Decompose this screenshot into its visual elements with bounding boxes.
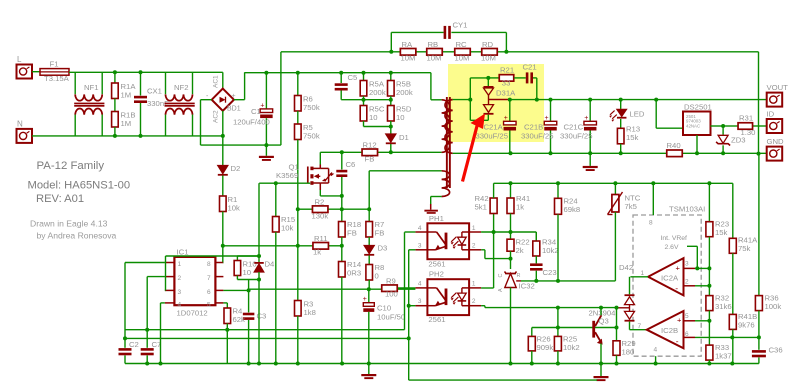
resistor R1A <box>114 72 116 83</box>
junction gate R15 <box>274 181 278 185</box>
junction R1A top <box>113 70 117 74</box>
resistor RD <box>482 49 498 56</box>
svg-text:IC2B: IC2B <box>661 326 678 335</box>
wire top rail primary <box>69 71 223 73</box>
junction PH2 pin3 tap <box>407 304 411 308</box>
wire R29 top link <box>616 308 618 341</box>
svg-text:10M: 10M <box>455 54 470 63</box>
wire PH1 pin1 row <box>481 231 536 233</box>
junction R5A bottom <box>362 98 366 102</box>
wire R21 feed <box>488 77 499 79</box>
svg-text:4: 4 <box>178 301 182 308</box>
svg-text:5k1: 5k1 <box>475 203 487 212</box>
wire Q3 collector <box>600 308 602 316</box>
capacitor C23 <box>535 271 537 281</box>
junction minus row R col <box>707 284 711 288</box>
svg-text:2561: 2561 <box>428 259 445 268</box>
svg-text:10M: 10M <box>481 54 496 63</box>
junction R2 row R18 <box>340 207 344 211</box>
wire vout rail <box>510 99 767 101</box>
capacitor C2 <box>119 348 132 351</box>
svg-text:1: 1 <box>472 281 476 288</box>
svg-text:C: C <box>498 274 504 278</box>
svg-text:8: 8 <box>649 220 653 227</box>
svg-text:7: 7 <box>638 323 642 330</box>
wire D4R10 bottom node <box>236 276 238 280</box>
svg-text:VOUT: VOUT <box>767 83 789 92</box>
resistor R18 <box>341 209 343 221</box>
svg-text:K3569: K3569 <box>276 171 298 180</box>
junction IC32 anode rail <box>509 362 513 366</box>
dual diode D42 <box>629 277 631 295</box>
capacitor C7 <box>141 348 154 351</box>
diode D2 <box>222 136 224 165</box>
svg-text:R12: R12 <box>363 141 377 150</box>
resistor R5B <box>390 73 392 81</box>
thermistor NTC <box>614 183 616 194</box>
svg-text:15k: 15k <box>715 228 728 237</box>
opamp IC2B <box>647 311 684 348</box>
junction R41B rail <box>730 362 734 366</box>
junction C6 top <box>340 150 344 154</box>
svg-text:1k: 1k <box>313 248 321 257</box>
resistor R8 <box>366 265 373 281</box>
opamp IC2A <box>648 258 683 295</box>
wire IC2B plus row <box>695 320 709 322</box>
junction C1 bottom <box>264 143 268 147</box>
svg-text:PH1: PH1 <box>429 214 444 223</box>
transformer aux winding <box>442 171 450 197</box>
wire PH1 pin3 row <box>409 249 416 251</box>
wire fb row <box>249 288 382 290</box>
svg-text:180: 180 <box>622 348 635 357</box>
transformer primary winding <box>442 100 450 153</box>
svg-text:C21C: C21C <box>564 123 584 132</box>
wire R41A col <box>732 183 734 238</box>
svg-text:NF1: NF1 <box>84 83 99 92</box>
junction R1A bottom <box>113 134 117 138</box>
svg-text:2: 2 <box>178 275 182 282</box>
inductor NF1 <box>75 94 102 100</box>
capacitor C21 <box>526 72 529 83</box>
ic IC1 box <box>174 257 215 305</box>
wire IC2A plus row <box>695 267 709 269</box>
ic IC1 pins <box>165 262 175 264</box>
svg-text:120uF/400: 120uF/400 <box>233 118 270 127</box>
junction rail183 R24col <box>556 181 560 185</box>
svg-text:C21A: C21A <box>484 123 504 132</box>
junction C21A bottom <box>509 151 513 155</box>
svg-text:7: 7 <box>207 275 211 282</box>
wire PH2 pin3 row <box>409 305 416 307</box>
resistor R2 <box>312 206 328 213</box>
junction R11 row R18 <box>340 244 344 248</box>
wire NF1 bot-right stub <box>101 115 103 136</box>
junction C1 top <box>264 71 268 75</box>
junction rail183 NTC <box>613 181 617 185</box>
svg-text:10: 10 <box>369 113 378 122</box>
junction pin6 C3 <box>247 288 251 292</box>
junction rail183 R41col <box>509 181 513 185</box>
junction AC2 node <box>221 134 225 138</box>
svg-text:+: + <box>676 264 681 273</box>
wire R2 row <box>298 208 313 210</box>
wire NF1 top-left stub <box>74 72 76 94</box>
svg-text:4: 4 <box>654 347 658 354</box>
resistor RA <box>400 49 416 56</box>
wire pin3 route <box>164 289 167 291</box>
junction R13 bottom <box>619 151 623 155</box>
wire IC2B minus row <box>695 336 759 338</box>
junction minus C36 col <box>757 335 761 339</box>
resistor R42 <box>490 198 497 214</box>
svg-text:C1: C1 <box>251 107 261 116</box>
svg-text:by Andrea Ronesova: by Andrea Ronesova <box>37 231 117 241</box>
wire PH2 pin4 row <box>398 287 415 289</box>
capacitor C10 <box>368 289 370 302</box>
svg-text:4: 4 <box>418 225 422 232</box>
resistor R3 <box>295 301 302 317</box>
svg-text:FB: FB <box>365 155 375 164</box>
svg-text:N: N <box>17 120 23 129</box>
junction ZD3 bottom <box>721 151 725 155</box>
svg-text:100: 100 <box>385 290 398 299</box>
junction Q3 emitter rail <box>599 362 603 366</box>
svg-text:10: 10 <box>396 113 405 122</box>
resistor R31 <box>738 123 753 130</box>
wire pin4 gnd <box>655 356 657 363</box>
wire IC2A minus row <box>695 285 709 287</box>
fuse F1 <box>40 69 69 76</box>
capacitor C36 <box>758 337 760 349</box>
transistor Q3 2N3904 <box>592 321 595 338</box>
junction lineB start <box>123 336 127 340</box>
svg-text:R31: R31 <box>739 114 753 123</box>
svg-text:ZD3: ZD3 <box>731 136 746 145</box>
svg-text:1M: 1M <box>121 119 132 128</box>
resistor R33 <box>708 321 710 345</box>
ground Q3 area <box>600 364 602 377</box>
junction C21B bottom <box>549 151 553 155</box>
wire AC1 to bridge <box>222 72 224 88</box>
svg-text:2: 2 <box>472 298 476 305</box>
svg-text:RB: RB <box>428 40 439 49</box>
svg-text:3: 3 <box>178 289 182 296</box>
capacitor C5 <box>340 73 342 83</box>
svg-text:C21: C21 <box>523 63 537 72</box>
junction C7 bottom <box>145 362 149 366</box>
junction RA rail left <box>389 50 393 54</box>
svg-text:9k76: 9k76 <box>738 321 755 330</box>
svg-text:3: 3 <box>685 260 689 267</box>
svg-text:F1: F1 <box>50 60 59 69</box>
svg-text:FB: FB <box>375 229 385 238</box>
wire Q3 emitter <box>600 344 602 364</box>
wire pin1 route <box>125 262 165 264</box>
svg-text:D1: D1 <box>399 133 409 142</box>
svg-text:75k: 75k <box>738 244 751 253</box>
svg-text:R: R <box>517 273 521 279</box>
svg-text:33: 33 <box>502 79 511 88</box>
svg-text:RD: RD <box>482 40 494 49</box>
wire pin8 V+ <box>652 183 654 215</box>
wire line b <box>125 337 409 339</box>
svg-text:0R3: 0R3 <box>347 269 361 278</box>
svg-text:8: 8 <box>207 261 211 268</box>
svg-text:10uF/50: 10uF/50 <box>377 313 405 322</box>
svg-text:T3.15A: T3.15A <box>44 74 70 83</box>
svg-text:-: - <box>675 283 678 293</box>
capacitor CY1 <box>444 26 447 39</box>
terminal GND <box>767 147 783 161</box>
diode D1 <box>390 127 392 134</box>
svg-text:330uF/25: 330uF/25 <box>560 132 592 141</box>
svg-text:10M: 10M <box>427 54 442 63</box>
svg-text:C21B: C21B <box>524 123 543 132</box>
junction pin4 bottom <box>159 362 163 366</box>
junction D4 col rail <box>257 362 261 366</box>
resistor R32 <box>708 268 710 295</box>
svg-text:2: 2 <box>685 279 689 286</box>
svg-text:D4: D4 <box>265 260 276 269</box>
wire pin2 route <box>147 276 165 278</box>
resistor RC <box>455 49 471 56</box>
svg-text:L: L <box>17 55 22 64</box>
ground main bottom <box>368 364 370 375</box>
svg-text:2.6V: 2.6V <box>665 244 679 251</box>
resistor R25 <box>557 328 559 337</box>
resistor R22 <box>510 232 512 239</box>
wire rail183 corner <box>493 183 495 198</box>
svg-text:IC1: IC1 <box>177 248 189 257</box>
wire aux tap <box>431 196 442 198</box>
wire NF1 top-right stub <box>101 72 103 94</box>
wire primary top <box>430 73 432 100</box>
resistor R5 <box>295 124 302 140</box>
wire R11 row <box>223 245 313 247</box>
wire R21 to C21 <box>514 77 526 79</box>
svg-text:200k: 200k <box>369 88 386 97</box>
svg-text:69k8: 69k8 <box>564 205 581 214</box>
junction R33 rail <box>707 362 711 366</box>
wire R42 col <box>493 214 495 289</box>
svg-text:PA-12 Family: PA-12 Family <box>37 160 105 172</box>
junction LED top <box>619 98 623 102</box>
svg-text:PH2: PH2 <box>429 270 444 279</box>
resistor R14 <box>341 246 343 262</box>
resistor R6 <box>297 73 299 96</box>
junction pin4 rail <box>654 362 658 366</box>
junction R3 bottom <box>296 362 300 366</box>
optocoupler PH1 <box>427 223 469 259</box>
junction plus row R col <box>707 266 711 270</box>
svg-text:DS2501: DS2501 <box>684 103 712 112</box>
wire R26 col <box>531 328 533 337</box>
wire R12 row <box>320 151 362 153</box>
junction divider R25 <box>556 326 560 330</box>
svg-text:D3: D3 <box>378 244 388 253</box>
junction R5B bottom <box>389 98 393 102</box>
junction R5D bottom <box>389 125 393 129</box>
junction C3 bottom <box>247 362 251 366</box>
junction R2 row R7col <box>367 207 371 211</box>
svg-text:7k5: 7k5 <box>625 202 637 211</box>
svg-text:-: - <box>206 93 209 100</box>
diode D3 <box>364 246 374 254</box>
resistor R21 <box>499 75 514 82</box>
ic TSM103 box <box>633 215 701 356</box>
optocoupler PH2 <box>427 279 469 315</box>
svg-text:C36: C36 <box>769 346 783 355</box>
junction R6 top <box>296 71 300 75</box>
svg-text:2k: 2k <box>516 246 524 255</box>
svg-text:1: 1 <box>472 225 476 232</box>
junction D1 bottom R12 row <box>389 150 393 154</box>
junction R29 rail <box>615 362 619 366</box>
highlight region <box>448 64 544 142</box>
wire pin8 route <box>222 262 225 264</box>
resistor R4 <box>224 308 231 324</box>
svg-text:6: 6 <box>685 331 689 338</box>
wire Q1 source <box>319 190 321 196</box>
wire Q1 source col <box>341 196 343 209</box>
resistor R24 <box>557 183 559 198</box>
svg-text:C23: C23 <box>543 268 557 277</box>
resistor R11 <box>313 243 329 250</box>
svg-text:1k8: 1k8 <box>304 308 316 317</box>
wire D4 col to rail <box>258 280 260 364</box>
junction IC2B plus node <box>707 319 711 323</box>
junction D31A out <box>508 98 512 102</box>
junction C21C bottom <box>588 151 592 155</box>
junction R24 bottom <box>556 279 560 283</box>
resistor R34 <box>535 232 537 241</box>
wire PH1 pin4 row <box>405 231 416 233</box>
junction R8 bottom <box>367 287 371 291</box>
junction pin2row R29 <box>615 306 619 310</box>
inductor NF2 <box>166 94 193 100</box>
bridge rectifier BD1 <box>212 89 234 111</box>
svg-text:10k2: 10k2 <box>542 246 559 255</box>
svg-text:3: 3 <box>418 242 422 249</box>
svg-text:1: 1 <box>641 270 645 277</box>
junction R11 row R5col <box>296 244 300 248</box>
zener ZD3 <box>722 126 724 135</box>
wire rail 183 <box>494 182 733 184</box>
wire earth column <box>758 52 760 154</box>
junction C21C top <box>588 98 592 102</box>
resistor R1 <box>222 176 224 197</box>
svg-text:D2: D2 <box>231 164 241 173</box>
resistor R12 <box>362 149 378 156</box>
junction CX1 bottom <box>139 134 143 138</box>
wire R5 mid node <box>364 99 391 101</box>
ground below C1 <box>265 145 267 156</box>
diode LED <box>620 100 622 109</box>
wire PH2 pin2 row <box>481 305 485 307</box>
resistor R5D <box>390 100 392 106</box>
junction R26 rail <box>530 362 534 366</box>
svg-text:AC2: AC2 <box>213 110 220 123</box>
svg-text:ID: ID <box>767 110 775 119</box>
capacitor C21B <box>550 100 552 121</box>
capacitor C6 <box>341 152 343 169</box>
svg-text:1k37: 1k37 <box>715 352 732 361</box>
capacitor C21C <box>589 100 591 121</box>
svg-text:Drawn in Eagle 4.13: Drawn in Eagle 4.13 <box>30 219 108 229</box>
wire L to F1 <box>32 71 40 73</box>
transistor Q1 K3569 <box>307 167 309 184</box>
wire N row <box>32 135 223 137</box>
resistor R15 <box>275 183 277 216</box>
svg-text:R21: R21 <box>500 66 514 75</box>
svg-text:LED: LED <box>630 110 645 119</box>
capacitor C21A <box>509 100 511 121</box>
wire rail d <box>409 379 597 381</box>
transformer secondary winding <box>445 100 453 154</box>
svg-text:C2: C2 <box>129 340 139 349</box>
svg-text:D42: D42 <box>619 263 633 272</box>
wire NF2 top-right stub <box>192 72 194 94</box>
wire secondary bottom <box>453 152 511 154</box>
svg-text:R11: R11 <box>314 234 328 243</box>
svg-text:31k6: 31k6 <box>715 302 732 311</box>
wire PH col3 down <box>408 250 410 380</box>
resistor RB <box>427 49 443 56</box>
junction C5 top <box>339 71 343 75</box>
svg-text:62k: 62k <box>233 315 246 324</box>
wire NF1 bot-left stub <box>74 115 76 136</box>
wire line a <box>125 329 405 331</box>
junction R5B top <box>389 71 393 75</box>
junction pin1row R42 <box>492 230 496 234</box>
svg-text:2561: 2561 <box>428 315 445 324</box>
svg-text:C10: C10 <box>377 304 391 313</box>
svg-text:GND: GND <box>767 137 785 146</box>
svg-text:10k: 10k <box>228 204 241 213</box>
svg-text:1M: 1M <box>121 91 132 100</box>
junction R15 bottom <box>274 362 278 366</box>
wire minus rail up to CY net <box>280 52 282 145</box>
wire IC2A out <box>630 276 648 278</box>
wire RA rail <box>281 51 401 53</box>
wire plus rail <box>245 72 431 74</box>
junction CX1 top <box>139 70 143 74</box>
resistor R40 <box>667 150 683 157</box>
svg-text:1k: 1k <box>516 203 524 212</box>
resistor R36 <box>758 154 760 296</box>
resistor R29 <box>613 341 620 356</box>
dual diode D31A <box>487 78 489 86</box>
wire gate col down <box>258 183 260 256</box>
tl431 IC32 <box>510 259 512 269</box>
svg-text:C3: C3 <box>257 312 267 321</box>
wire BD1 plus up <box>234 99 245 101</box>
resistor R26 <box>528 336 535 351</box>
svg-text:FB: FB <box>347 229 357 238</box>
svg-text:2: 2 <box>472 242 476 249</box>
svg-text:RA: RA <box>402 40 414 49</box>
resistor R13 <box>617 128 624 144</box>
terminal L <box>17 65 33 79</box>
svg-text:BD1: BD1 <box>227 106 241 113</box>
wire secondary gnd rail <box>511 152 667 154</box>
wire PH2 pin1 jog <box>481 287 494 289</box>
wire AC2 to N node <box>222 111 224 136</box>
svg-text:10k: 10k <box>281 224 294 233</box>
transformer core <box>446 97 448 188</box>
junction lineA C7 <box>145 328 149 332</box>
